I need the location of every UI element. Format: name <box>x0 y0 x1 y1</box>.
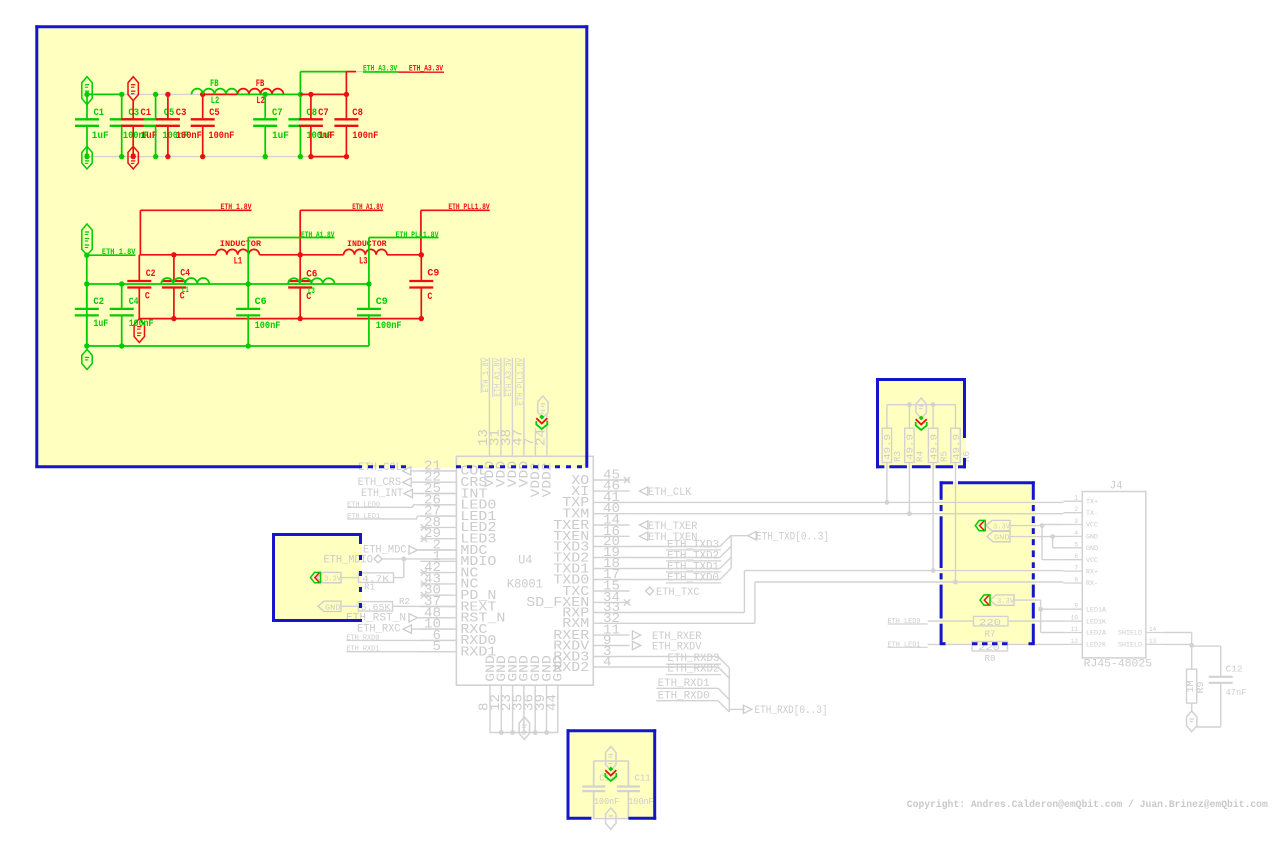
U4 power pin 13 with label ETH_1.8V <box>488 358 490 457</box>
wire TXP to J4 pin 1 <box>630 501 1064 503</box>
svg-text:R7: R7 <box>985 629 996 640</box>
wire TXM to J4 pin 2 <box>630 513 1064 515</box>
J4 pin 11 LED2A <box>1063 632 1082 634</box>
red power symbol +3.3V <box>128 77 138 101</box>
highlight border (R3-R6 box) <box>876 378 966 381</box>
svg-text:TX+: TX+ <box>1086 498 1098 505</box>
svg-text:C2: C2 <box>146 268 156 280</box>
svg-text:C: C <box>427 291 433 303</box>
capacitor C3 red 100nF <box>167 94 169 119</box>
gray GND symbol under chip <box>519 717 529 740</box>
GND rail under chip <box>490 732 558 734</box>
svg-text:R3: R3 <box>892 451 903 462</box>
power label 3.3V lower near J4 <box>990 595 1014 605</box>
junction R5/RX+ <box>931 568 936 573</box>
svg-text:ETH_MDIO: ETH_MDIO <box>324 554 374 566</box>
red rail C7/C8 <box>300 93 346 95</box>
wire R8 to J4 pin 12 <box>1008 643 1064 645</box>
wire ETH_INT to pin 25 <box>412 493 456 495</box>
green rail 1.8V mid <box>87 283 369 285</box>
green bottom rail 1.8V <box>87 345 369 347</box>
wire R3 down <box>886 463 888 503</box>
red GND symbol left <box>128 146 138 169</box>
wire ETH_TXD3 <box>630 546 720 548</box>
highlight box fill (R1/R2 bias) <box>272 533 362 622</box>
svg-text:13: 13 <box>1149 638 1156 645</box>
gray GND symbol below R9 <box>1187 711 1197 732</box>
U4 pin 21 COL <box>420 470 456 472</box>
J4 connector outline <box>1082 492 1146 658</box>
diff marker 3.3V lower J4 <box>980 595 990 605</box>
svg-text:C7: C7 <box>318 107 329 119</box>
wire ETH_RST_N to pin 48 <box>417 617 456 619</box>
green GND symbol 1.8V <box>82 349 92 369</box>
capacitor C7 red 1uF <box>310 94 312 119</box>
J4 pin 13 SHIELD <box>1146 643 1164 645</box>
U4 pin 5 RXD1 <box>420 651 456 653</box>
svg-text:3.3V: 3.3V <box>324 576 341 584</box>
bus entry ETH_TXD1 <box>720 557 731 568</box>
svg-text:ETH_TXC: ETH_TXC <box>656 587 700 599</box>
svg-text:ETH_RXD[0..3]: ETH_RXD[0..3] <box>755 705 828 717</box>
resistor R6 49.9 <box>955 405 957 429</box>
svg-text:ETH_TXD[0..3]: ETH_TXD[0..3] <box>756 532 829 544</box>
wire ETH_RXD2 <box>630 666 719 668</box>
wire R9/C12 bottom join <box>1191 703 1193 711</box>
highlight box fill (LED / RJ45) <box>940 481 1035 645</box>
svg-text:L2: L2 <box>211 95 220 107</box>
no-connect x pin 30 <box>421 592 427 598</box>
highlight box fill (C10/C11) <box>567 729 657 820</box>
U4 pin 4 RXD2 <box>593 666 629 668</box>
svg-text:100nF: 100nF <box>208 130 234 142</box>
U4 pin 6 RXD0 <box>420 639 456 641</box>
capacitor C9 red <box>420 255 422 281</box>
gray power symbol above C10/C11 <box>606 747 616 771</box>
U4 GND pin 8 <box>489 685 491 732</box>
svg-text:C4: C4 <box>129 296 139 308</box>
svg-text:GND: GND <box>1086 545 1098 552</box>
capacitor C10 100nF <box>593 761 595 787</box>
inductor L3 red <box>344 249 387 254</box>
svg-text:ETH_INT: ETH_INT <box>361 488 403 500</box>
U4 pin 19 TXD2 <box>593 557 629 559</box>
U4 pin 16 TXEN <box>593 535 629 537</box>
svg-text:100nF: 100nF <box>176 130 202 142</box>
green power symbol +3.3V <box>82 77 92 105</box>
wire ETH_LED0 to R7 <box>928 620 974 622</box>
U4 pin 2 MDC <box>420 549 456 551</box>
svg-text:INDUCTOR: INDUCTOR <box>220 240 262 249</box>
wire C10/C11 top rail <box>594 760 629 762</box>
svg-text:ETH_TXER: ETH_TXER <box>648 521 698 533</box>
U4 pin 45 XO <box>593 479 629 481</box>
resistor R3 49.9 <box>886 405 888 429</box>
wire R5 down <box>932 463 934 571</box>
diff marker 3.3V R1 box <box>311 572 321 582</box>
svg-text:U4: U4 <box>518 553 532 568</box>
U4 pin 20 TXD3 <box>593 546 629 548</box>
U4 pin 42 NC <box>420 572 456 574</box>
bus vertical RXD <box>728 668 730 712</box>
red wire under green coil <box>203 93 238 95</box>
green vertical ETH_1.8V <box>86 255 88 346</box>
svg-text:R6: R6 <box>961 451 972 462</box>
svg-text:7: 7 <box>1074 565 1078 572</box>
wire ETH_CRS to pin 22 <box>411 481 456 483</box>
svg-text:LED1K: LED1K <box>1086 618 1106 625</box>
svg-text:100nF: 100nF <box>255 320 281 332</box>
green wire under red coil <box>238 93 301 95</box>
U4 GND pin 23 <box>512 685 514 732</box>
bus entry ETH_RXD3 <box>718 657 729 668</box>
svg-text:R4: R4 <box>915 451 926 462</box>
capacitor C1 green 1uF <box>86 94 88 119</box>
U4 pin 10 RXC <box>420 628 456 630</box>
svg-text:C7: C7 <box>272 107 283 119</box>
J4 pin 5 GND <box>1063 547 1082 549</box>
wire ETH_RXD1 to pin 5 <box>346 651 456 653</box>
wire ETH_RXD0 <box>656 700 718 702</box>
svg-text:4: 4 <box>603 656 612 671</box>
svg-text:RX+: RX+ <box>1086 568 1098 575</box>
capacitor C4 red <box>173 255 175 281</box>
svg-text:6: 6 <box>1074 553 1078 560</box>
svg-text:ETH_LED1: ETH_LED1 <box>347 513 380 521</box>
capacitor C11 100nF <box>627 761 629 787</box>
wire ETH_MDIO to pin 1 <box>382 558 456 560</box>
svg-text:9: 9 <box>1074 603 1078 610</box>
capacitor C3 green 100nF <box>121 94 123 119</box>
svg-text:1: 1 <box>1074 495 1078 502</box>
global label ETH_RXD[0..3] <box>743 705 751 713</box>
J4 pin 3 VCC <box>1063 524 1082 526</box>
global label ETH_TXD[0..3] <box>748 532 756 540</box>
svg-text:4: 4 <box>1074 530 1078 537</box>
svg-text:SHIELD: SHIELD <box>1118 630 1142 637</box>
wire GND to J4 GND pins <box>1010 536 1053 538</box>
U4 pin 46 XI <box>593 490 629 492</box>
svg-text:100nF: 100nF <box>594 796 619 807</box>
U4 pin 18 TXD1 <box>593 568 629 570</box>
svg-text:10: 10 <box>1071 615 1078 622</box>
U4 pin 40 TXM <box>593 513 629 515</box>
J4 pin 1 TX+ <box>1063 500 1082 502</box>
svg-text:C1: C1 <box>141 107 152 119</box>
wire C10/C11 bottom rail <box>594 818 629 820</box>
no-connect x pin 43 <box>421 581 427 587</box>
resistor R9 1M <box>1187 669 1197 703</box>
capacitor C5 green 100nF <box>155 94 157 119</box>
svg-text:ETH_RXD0: ETH_RXD0 <box>346 634 379 642</box>
U4 GND pin 35 <box>523 685 525 732</box>
gray power symbol 3.3V terminators <box>916 398 926 419</box>
highlight border (C10/C11 box) <box>567 729 657 732</box>
global label ETH_RXDV <box>632 641 640 649</box>
svg-text:L1: L1 <box>234 256 243 268</box>
U4 pin 28 LED2 <box>420 526 456 528</box>
power label 3.3V upper near J4 <box>986 520 1010 530</box>
svg-text:220: 220 <box>979 617 1001 628</box>
wire ETH_TXD2 <box>630 557 720 559</box>
wire SHIELD pins to R9/C12 <box>1164 632 1192 634</box>
svg-text:1uF: 1uF <box>318 130 335 142</box>
U4 pin 41 TXP <box>593 501 629 503</box>
wire RXP to RX+ line <box>630 612 745 614</box>
svg-text:GND: GND <box>994 535 1010 543</box>
highlight box fill (power filters) <box>35 25 587 468</box>
inductor L1 red <box>216 249 259 254</box>
svg-text:SHIELD: SHIELD <box>1118 642 1142 649</box>
capacitor C6 red <box>299 255 301 281</box>
highlight border (R1/R2 box) <box>272 533 362 536</box>
U4 GND pin 39 <box>546 685 548 732</box>
U4 power pin 47 with label ETH_PLL1.8V <box>523 358 525 457</box>
capacitor C8 green 100nF <box>299 94 301 119</box>
svg-text:C3: C3 <box>176 107 187 119</box>
svg-text:ETH_RXD2: ETH_RXD2 <box>668 664 720 676</box>
svg-text:R8: R8 <box>985 653 996 664</box>
wire 3.3V to J4 VCC pins <box>1010 525 1042 527</box>
capacitor C6 green 100nF <box>247 284 249 309</box>
no-connect x pin 34 <box>624 599 630 605</box>
svg-text:ETH_RXDV: ETH_RXDV <box>652 641 702 653</box>
U4 pin 25 INT <box>420 493 456 495</box>
svg-text:1uF: 1uF <box>272 130 289 142</box>
gray power symbol above pin 24 <box>538 396 548 418</box>
wire ETH_RXD3 <box>630 656 719 658</box>
wire 3.3V to LED anodes <box>1014 599 1041 601</box>
U4 power pin 7 <box>534 429 536 457</box>
svg-text:L3: L3 <box>308 287 315 296</box>
wire ETH_TXD1 <box>630 568 720 570</box>
svg-text:5: 5 <box>433 640 442 655</box>
global label ETH_RXER <box>632 631 640 639</box>
U4 pin 22 CRS <box>420 481 456 483</box>
svg-text:C5: C5 <box>209 107 220 119</box>
wire ETH_COL to pin 21 <box>411 470 456 472</box>
global label ETH_TXER <box>639 521 647 529</box>
red GND symbol 1.8V <box>134 319 144 343</box>
svg-text:3.3V: 3.3V <box>997 598 1014 606</box>
resistor R2 6.65K <box>359 602 393 612</box>
junction R3/TXP <box>885 500 890 505</box>
svg-text:LED2A: LED2A <box>1086 630 1106 637</box>
svg-text:24: 24 <box>534 429 549 446</box>
U4 pin 33 RXP <box>593 612 629 614</box>
junction green <box>84 92 89 97</box>
U4 pin 17 TXD0 <box>593 579 629 581</box>
wire 3.3V to R1 <box>341 577 359 579</box>
wire bus to ETH_TXD[0..3] label <box>731 535 748 537</box>
diff marker C10 power <box>608 767 613 772</box>
gray rail 3.3V filter bottom <box>87 156 346 158</box>
svg-text:C: C <box>145 291 151 303</box>
J4 pin 7 RX+ <box>1063 570 1082 572</box>
resistor R8 220 <box>972 642 1008 652</box>
svg-text:GND: GND <box>325 604 341 612</box>
global label ETH_CLK <box>639 487 647 495</box>
no-connect x pin 45 XO <box>624 477 630 483</box>
svg-text:ETH_CLK: ETH_CLK <box>648 487 692 499</box>
svg-text:C8: C8 <box>352 107 363 119</box>
svg-text:GND: GND <box>551 655 566 682</box>
inductor L3 green <box>288 278 334 284</box>
svg-text:ETH_PLL1.8V: ETH_PLL1.8V <box>396 231 439 240</box>
J4 pin 12 LED2K <box>1063 643 1082 645</box>
red wire ETH_1.8V drop <box>139 210 141 255</box>
U4 GND pin 12 <box>500 685 502 732</box>
wire ETH_LED1 to pin 27 <box>347 518 417 520</box>
svg-text:VCC: VCC <box>1086 557 1098 564</box>
capacitor C8 red 100nF <box>345 94 347 119</box>
svg-text:100nF: 100nF <box>352 130 378 142</box>
no-connect x pin 28 <box>421 524 427 530</box>
ferrite bead FB L2 red <box>238 89 284 95</box>
svg-text:C2: C2 <box>93 296 104 308</box>
capacitor C2 green 1uF <box>86 284 88 309</box>
wire R4 down <box>908 463 910 514</box>
svg-text:VCC: VCC <box>1086 522 1098 529</box>
bus entry ETH_RXD2 <box>718 667 729 678</box>
J4 pin 10 LED1K <box>1063 620 1082 622</box>
junction MDIO/R1 <box>401 557 406 562</box>
U4 pin 32 RXM <box>593 622 629 624</box>
resistor R4 49.9 <box>908 405 910 429</box>
capacitor C9 green 100nF <box>368 284 370 309</box>
svg-text:L1: L1 <box>182 286 189 295</box>
svg-text:C12: C12 <box>1226 664 1243 675</box>
highlight border (LED/RJ45 box) <box>940 481 953 484</box>
svg-text:ETH_LED0: ETH_LED0 <box>347 501 380 509</box>
wire R7 to J4 pin 10 <box>1008 620 1063 622</box>
svg-text:K8001: K8001 <box>507 577 543 592</box>
capacitor C5 red 100nF <box>202 94 204 119</box>
svg-text:3.3V: 3.3V <box>993 524 1010 532</box>
hier label ETH_TXC <box>646 587 654 595</box>
wire GND to R2 <box>341 605 359 607</box>
U4 pin 43 NC <box>420 583 456 585</box>
svg-text:100nF: 100nF <box>376 320 402 332</box>
resistor R5 49.9 <box>932 405 934 429</box>
svg-text:ETH_A1.8V: ETH_A1.8V <box>301 231 335 240</box>
svg-text:ETH_PLL1.8V: ETH_PLL1.8V <box>516 358 525 405</box>
gray wire to ETH_A3.3V labels <box>346 71 409 73</box>
junction R4/TXM <box>907 511 912 516</box>
gray rail 3.3V filter top <box>122 93 203 95</box>
resistor R1 4.7K <box>359 573 394 583</box>
inductor L1 green <box>161 278 209 284</box>
svg-text:GND: GND <box>1086 534 1098 541</box>
svg-text:L2: L2 <box>256 95 265 107</box>
J4 pin 4 GND <box>1063 535 1082 537</box>
svg-text:12: 12 <box>1071 638 1078 645</box>
global label ETH_TXEN <box>639 532 647 540</box>
wire ETH_LED0 to pin 26 <box>347 506 413 508</box>
U4 power pin 31 with label ETH_A1.8V <box>500 358 502 457</box>
green wire 3.3V rail <box>87 93 122 95</box>
svg-text:11: 11 <box>1071 626 1078 633</box>
U4 pin 11 RXER <box>593 634 629 636</box>
capacitor C2 red <box>138 255 140 281</box>
J4 pin 14 SHIELD <box>1146 632 1164 634</box>
svg-text:ETH_LED1: ETH_LED1 <box>888 641 921 649</box>
U4 chip body outline <box>456 456 593 685</box>
power label GND at R2 <box>318 601 341 611</box>
diff marker 3.3V upper J4 <box>975 520 985 530</box>
svg-text:C9: C9 <box>376 296 388 308</box>
svg-text:ETH_A3.3V: ETH_A3.3V <box>505 358 514 397</box>
J4 pin 2 TX- <box>1063 512 1082 514</box>
diff marker above U4 pin 24 <box>539 415 544 420</box>
wire ETH_RXD1 <box>656 687 718 689</box>
capacitor C12 47nF <box>1209 676 1233 678</box>
svg-text:RJ45-48025: RJ45-48025 <box>1084 658 1153 670</box>
power label 3.3V at R1 <box>317 572 341 582</box>
green wire up to ETH_A3.3V <box>299 72 301 95</box>
gray GND symbol below C10/C11 <box>606 808 616 829</box>
capacitor C4 green 100nF <box>121 284 123 309</box>
svg-text:C4: C4 <box>180 267 190 279</box>
U4 power pin 38 with label ETH_A3.3V <box>511 358 513 457</box>
svg-text:1uF: 1uF <box>92 130 109 142</box>
svg-text:R9: R9 <box>1195 681 1206 693</box>
junction R6/RX- <box>953 580 958 585</box>
bus entry ETH_RXD1 <box>718 688 729 699</box>
no-connect x pin 42 <box>421 569 427 575</box>
wire R1 to MDIO <box>394 577 404 579</box>
svg-text:ETH_1.8V: ETH_1.8V <box>482 358 491 393</box>
U4 pin 27 LED1 <box>420 515 456 517</box>
no-connect x pin 29 <box>421 536 427 542</box>
svg-text:ETH_RXD1: ETH_RXD1 <box>346 646 379 654</box>
wire ETH_LED1 to R8 <box>928 643 972 645</box>
svg-text:LED2K: LED2K <box>1086 642 1106 649</box>
wire bus to ETH_RXD[0..3] label <box>729 708 745 710</box>
U4 pin 30 PD_N <box>420 594 456 596</box>
J4 pin 9 LED1A <box>1063 608 1082 610</box>
highlight border (power filters box) <box>35 25 588 28</box>
svg-text:8: 8 <box>1074 577 1078 584</box>
capacitor C1 red 1uF <box>132 101 134 120</box>
svg-text:100nF: 100nF <box>129 318 154 330</box>
highlight box fill (R3-R6 terminators) <box>876 378 966 468</box>
svg-text:ETH_LED0: ETH_LED0 <box>888 618 921 626</box>
svg-text:C6: C6 <box>255 296 267 308</box>
svg-text:Copyright: Andres.Calderon@emQ: Copyright: Andres.Calderon@emQbit.com / … <box>907 799 1268 811</box>
bus entry ETH_TXD2 <box>720 546 731 557</box>
U4 pin 26 LED0 <box>420 504 456 506</box>
svg-text:2: 2 <box>1074 506 1078 513</box>
wire R2 to pin 37 REXT <box>393 605 457 607</box>
svg-text:1uF: 1uF <box>93 318 108 330</box>
svg-text:FB: FB <box>210 78 219 90</box>
green GND symbol left <box>82 146 92 169</box>
wire ETH_RXD0 to pin 6 <box>346 639 456 641</box>
svg-text:14: 14 <box>1149 626 1156 633</box>
wire ETH_TXD0 <box>630 579 720 581</box>
J4 pin 8 RX- <box>1063 582 1082 584</box>
U4 pin 37 REXT <box>420 606 456 608</box>
U4 pin 15 TXC <box>593 590 629 592</box>
svg-text:R1: R1 <box>364 582 375 593</box>
U4 pin 48 RST_N <box>420 617 456 619</box>
red bottom rail 1.8V <box>139 318 421 320</box>
wire R6 down <box>955 463 957 583</box>
U4 pin 14 TXER <box>593 524 629 526</box>
bus entry ETH_TXD0 <box>720 568 731 579</box>
bus vertical TXD <box>730 535 732 568</box>
